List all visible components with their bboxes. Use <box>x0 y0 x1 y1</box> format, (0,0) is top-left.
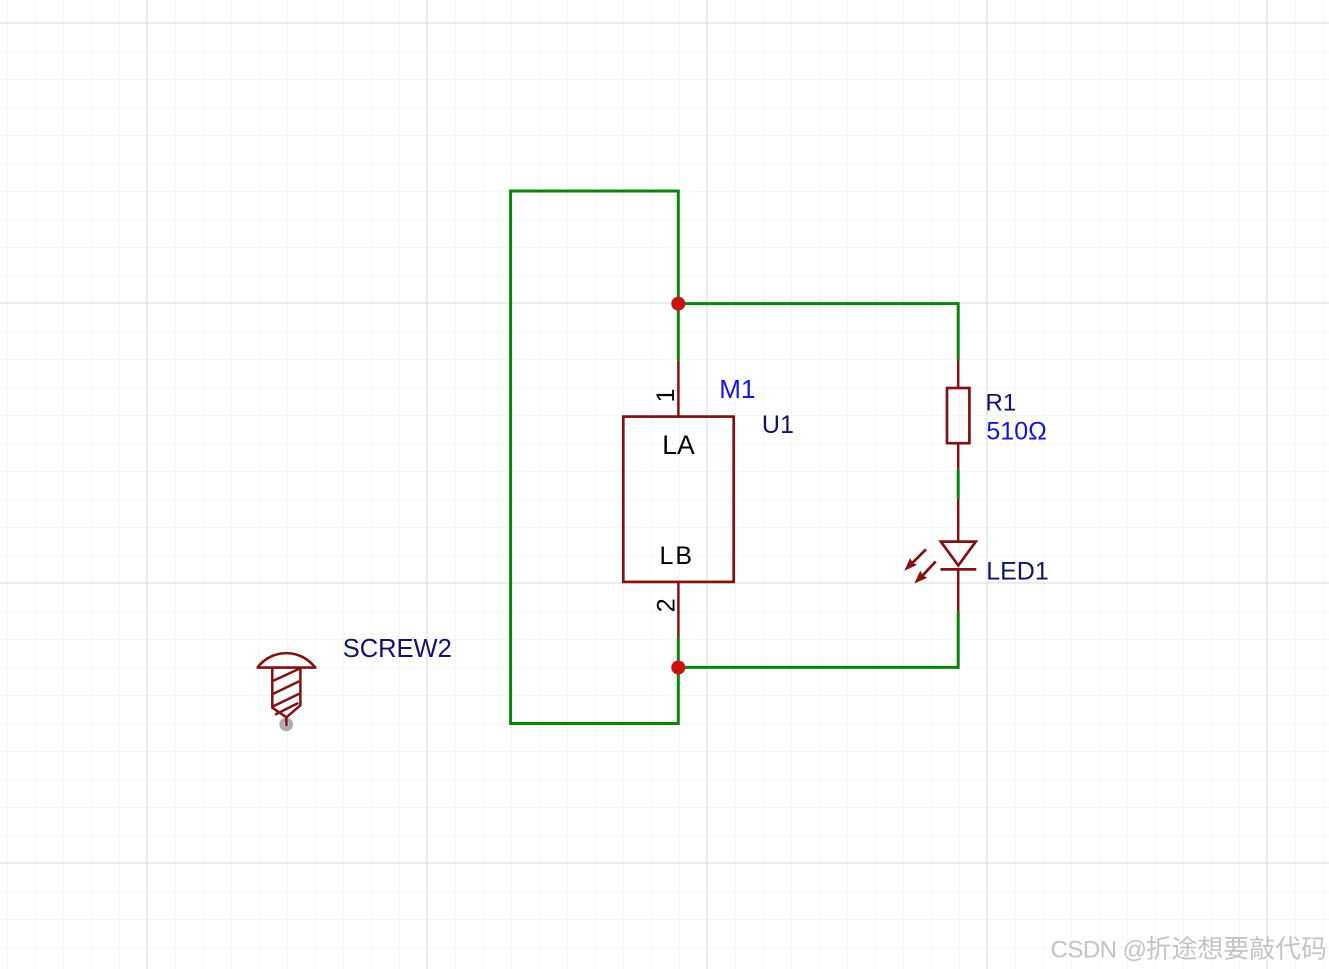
svg-text:1: 1 <box>652 388 680 402</box>
svg-text:LED1: LED1 <box>986 558 1049 586</box>
R1 top pin <box>957 360 960 387</box>
screw thread hatch 3 <box>272 694 299 707</box>
svg-text:LA: LA <box>662 430 695 460</box>
svg-text:M1: M1 <box>719 374 755 404</box>
wire: battery loop (left rectangle) <box>511 191 679 724</box>
screw pin stub <box>285 717 288 726</box>
R1 bottom pin <box>957 444 960 469</box>
screw thread hatch 1 <box>272 669 299 682</box>
wire: below LED1 <box>957 612 960 669</box>
component M1/U1 rectangle body <box>623 417 733 582</box>
LED1 light arrow upper <box>905 549 926 569</box>
screw thread hatch 4 <box>275 703 298 715</box>
screw pad hole <box>284 722 289 727</box>
screw pad outer <box>279 718 293 732</box>
wire: right column above R1 <box>957 302 960 360</box>
svg-text:SCREW2: SCREW2 <box>343 635 452 663</box>
screw thread hatch 2 <box>272 681 299 694</box>
svg-text:LB: LB <box>660 542 695 570</box>
junction dot top <box>671 297 685 311</box>
screw SCREW2 head dome <box>258 653 315 667</box>
LED1 bottom pin <box>957 569 960 611</box>
watermark gray cjk <box>1147 936 1171 960</box>
resistor R1 body <box>947 388 969 443</box>
svg-text:510Ω: 510Ω <box>986 417 1046 445</box>
wire: top horizontal to R1 <box>677 302 958 305</box>
watermark white emboss cjk <box>1148 937 1172 961</box>
svg-text:R1: R1 <box>986 389 1017 416</box>
pin 1 of U1 <box>677 361 680 416</box>
LED1 cathode bar <box>941 568 977 571</box>
svg-text:CSDN @: CSDN @ <box>1051 937 1147 964</box>
LED1 light arrow lower <box>915 561 935 582</box>
svg-text:U1: U1 <box>762 411 794 439</box>
wire: bottom horizontal from LED <box>677 666 958 669</box>
screw head base line <box>257 666 317 669</box>
screw shank right side <box>286 668 300 718</box>
pin 2 of U1 <box>677 583 680 637</box>
wire: between R1 and LED1 <box>957 469 960 499</box>
screw shank left side <box>272 668 286 718</box>
LED1 top pin <box>957 499 960 542</box>
svg-text:2: 2 <box>653 598 681 612</box>
junction dot bottom <box>671 661 685 675</box>
LED1 triangle <box>941 542 976 566</box>
